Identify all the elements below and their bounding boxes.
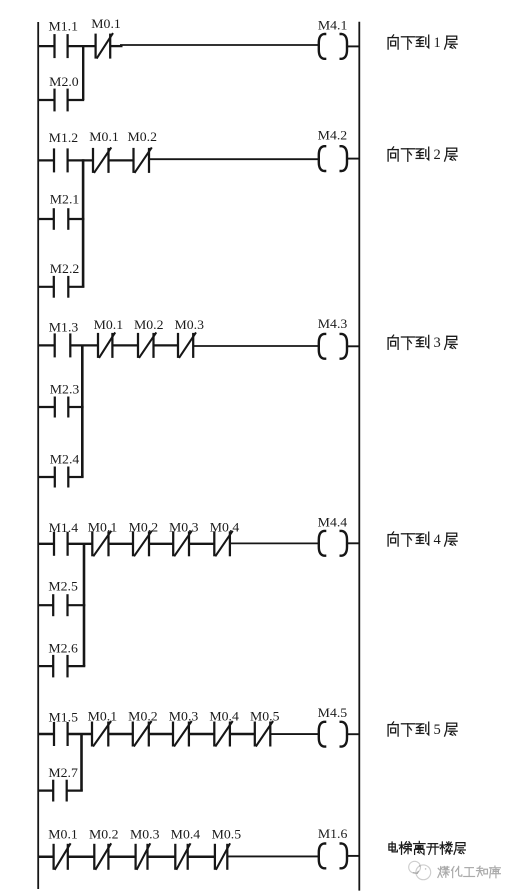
junction branches M2.5 M2.6 — [83, 544, 86, 666]
svg-text:M0.1: M0.1 — [89, 129, 119, 144]
wire M0.2 to M0.3 — [108, 856, 135, 859]
watermark logo — [409, 861, 431, 879]
junction branch M2.0 — [82, 45, 84, 100]
contact M0.2 (normally closed) — [94, 843, 111, 870]
wire rail to M2.5 — [38, 604, 54, 606]
wire M0.3 to M0.4 — [189, 733, 214, 735]
svg-text:M0.2: M0.2 — [128, 129, 158, 144]
wire M2.5 to junction — [68, 604, 86, 606]
node label: comment text "down to floor 2" — [388, 147, 457, 163]
watermark text — [438, 866, 501, 878]
contact M0.5 (normally closed) — [255, 721, 273, 747]
contact M0.1 (normally closed) — [96, 33, 113, 59]
svg-text:M1.5: M1.5 — [49, 709, 79, 724]
contact M2.0 (normally open) — [55, 89, 68, 112]
svg-text:M0.5: M0.5 — [212, 826, 242, 841]
svg-text:M2.6: M2.6 — [48, 641, 78, 656]
svg-text:M2.7: M2.7 — [48, 765, 78, 780]
wire coil M1.6 to right rail — [348, 855, 359, 857]
contact M1.5 (normally open) — [54, 722, 68, 746]
contact M2.6 (normally open) — [53, 655, 67, 678]
svg-text:M0.4: M0.4 — [210, 519, 240, 534]
svg-text:M0.4: M0.4 — [171, 826, 201, 841]
contact M0.4 (normally closed) — [214, 531, 232, 557]
node label: comment text "down to floor 5" — [388, 722, 457, 738]
svg-text:5: 5 — [434, 722, 441, 738]
wire long run to coil M4.1 — [120, 44, 318, 46]
svg-text:M2.2: M2.2 — [50, 261, 80, 276]
wire long run to coil M4.3 — [193, 345, 318, 347]
svg-text:M1.1: M1.1 — [49, 19, 79, 34]
wire M2.0 to junction — [68, 99, 85, 101]
wire M0.2 to M0.3 — [149, 733, 173, 735]
svg-text:M0.1: M0.1 — [94, 317, 124, 332]
contact M0.4 (normally closed) — [175, 843, 190, 870]
wire rail to M2.6 — [38, 665, 54, 667]
contact M0.2 (normally closed) — [138, 332, 156, 358]
wire M1.1 to M0.1 — [68, 45, 96, 47]
contact M1.2 (normally open) — [54, 148, 68, 172]
wire rail to M1.1 — [38, 45, 55, 47]
svg-text:M4.3: M4.3 — [318, 316, 348, 331]
wire M0.2 to M0.3 — [154, 344, 179, 346]
svg-text:M0.2: M0.2 — [128, 709, 158, 724]
junction branches M2.1 M2.2 — [82, 159, 85, 287]
svg-text:M0.2: M0.2 — [134, 317, 164, 332]
wire M0.2 to M0.3 — [149, 543, 173, 545]
contact M0.4 (normally closed) — [214, 721, 232, 747]
junction branch M2.7 — [80, 734, 83, 791]
wire long run to coil M4.2 — [149, 158, 318, 160]
wire M2.7 to junction — [67, 789, 83, 791]
wire M0.1 to M0.2 — [108, 733, 133, 735]
wire rail to M0.1 — [38, 856, 54, 859]
wire rail to M1.4 — [38, 543, 55, 545]
wire rail to M2.2 — [38, 286, 54, 288]
rung 5 : M4.5 down-to-floor-5 — [38, 705, 360, 802]
wire rail to M2.7 — [38, 789, 54, 791]
wire rail to M2.3 — [38, 406, 55, 408]
node label: comment text "elevator leaves floor" — [389, 841, 465, 854]
contact M0.1 (normally closed) — [92, 531, 111, 557]
contact M0.1 (normally closed) — [93, 147, 111, 173]
svg-text:M1.6: M1.6 — [318, 826, 348, 841]
contact M2.3 (normally open) — [55, 397, 69, 418]
wire coil M4.5 to right rail — [348, 733, 359, 735]
svg-text:M2.3: M2.3 — [50, 382, 80, 397]
contact M1.4 (normally open) — [54, 532, 68, 556]
rung 3 : M4.3 down-to-floor-3 — [38, 316, 360, 488]
svg-text:M1.4: M1.4 — [49, 520, 79, 535]
wire M2.1 to junction — [68, 218, 84, 220]
wire M1.3 to M0.1 — [70, 344, 98, 346]
wire M1.5 to M0.1 — [68, 733, 92, 735]
contact M2.4 (normally open) — [55, 467, 69, 488]
rung 2 : M4.2 down-to-floor-2 — [38, 128, 360, 298]
wire rail to M1.3 — [38, 344, 55, 346]
coil M4.2 — [319, 146, 347, 171]
wire M0.1 to M0.2 — [109, 159, 134, 161]
wire M2.4 to junction — [68, 476, 83, 478]
coil M4.5 — [319, 722, 347, 747]
contact M0.3 (normally closed) — [178, 332, 196, 358]
svg-text:M0.1: M0.1 — [88, 709, 118, 724]
svg-text:3: 3 — [434, 335, 441, 351]
svg-text:M0.3: M0.3 — [175, 317, 205, 332]
wire M1.4 to M0.1 — [68, 543, 93, 545]
svg-text:M0.4: M0.4 — [209, 709, 239, 724]
wire long run to coil M4.5 — [270, 733, 318, 735]
wire long run to coil M4.4 — [230, 542, 318, 544]
wire coil M4.2 to right rail — [348, 158, 359, 160]
wire M2.2 to junction — [68, 286, 84, 288]
wire long run to coil M1.6 — [227, 855, 318, 857]
contact M0.2 (normally closed) — [134, 147, 152, 173]
wire M0.4 to M0.5 — [188, 856, 215, 859]
wire rail to M1.5 — [38, 733, 55, 735]
contact M0.3 (normally closed) — [173, 531, 192, 557]
contact M0.1 (normally closed) — [92, 721, 111, 747]
node label: comment text "down to floor 1" — [388, 35, 457, 51]
svg-text:M0.1: M0.1 — [91, 16, 121, 31]
svg-text:M2.5: M2.5 — [48, 578, 78, 593]
contact M0.3 (normally closed) — [136, 843, 151, 870]
contact M0.2 (normally closed) — [133, 721, 152, 747]
wire coil M4.4 to right rail — [348, 542, 359, 544]
contact M2.1 (normally open) — [54, 208, 69, 230]
coil M4.4 — [319, 531, 347, 556]
contact M0.3 (normally closed) — [173, 721, 192, 747]
wire M0.1 to M0.2 — [68, 856, 95, 859]
coil M4.3 — [319, 334, 347, 359]
rung 4 : M4.4 down-to-floor-4 — [38, 514, 360, 677]
svg-text:4: 4 — [434, 532, 442, 548]
contact M0.5 (normally closed) — [215, 843, 230, 870]
contact M2.7 (normally open) — [53, 780, 66, 802]
svg-text:M4.4: M4.4 — [318, 514, 348, 529]
rung 1 : M4.1 down-to-floor-1 — [38, 16, 360, 111]
wire M0.1 to M0.2 — [109, 543, 134, 545]
svg-text:2: 2 — [434, 147, 441, 163]
svg-text:M1.2: M1.2 — [49, 130, 78, 145]
wire coil M4.1 to right rail — [348, 45, 359, 47]
coil M4.1 — [319, 34, 347, 59]
contact M1.3 (normally open) — [55, 333, 71, 357]
contact M1.1 (normally open) — [55, 34, 68, 58]
left power rail — [37, 22, 39, 889]
wire rail to M2.4 — [38, 476, 55, 478]
svg-text:M0.5: M0.5 — [250, 709, 280, 724]
svg-text:M4.5: M4.5 — [318, 705, 348, 720]
contact M0.1 (normally closed) — [54, 843, 71, 870]
contact M0.1 (normally closed) — [98, 332, 115, 358]
svg-text:M4.2: M4.2 — [318, 128, 348, 143]
rung 6 : M1.6 elevator-leaves-floor — [38, 826, 360, 870]
svg-text:M0.3: M0.3 — [130, 826, 160, 841]
svg-text:M0.3: M0.3 — [169, 709, 199, 724]
svg-text:M0.2: M0.2 — [129, 519, 159, 534]
svg-text:M0.1: M0.1 — [88, 519, 118, 534]
wire rail to M2.0 — [38, 99, 55, 101]
svg-text:M4.1: M4.1 — [318, 17, 348, 32]
svg-text:M2.1: M2.1 — [50, 192, 80, 207]
svg-text:M0.1: M0.1 — [48, 826, 78, 841]
contact M0.2 (normally closed) — [133, 531, 152, 557]
wire M2.6 to junction — [68, 665, 86, 667]
wire M0.4 to M0.5 — [230, 733, 255, 735]
wire rail to M2.1 — [38, 218, 54, 220]
wire M1.2 to M0.1 — [68, 159, 93, 161]
svg-text:M2.4: M2.4 — [50, 452, 80, 467]
wire M0.1 to M0.2 — [112, 344, 138, 346]
wire rail to M1.2 — [38, 159, 55, 161]
svg-text:M0.2: M0.2 — [89, 826, 119, 841]
node label: comment text "down to floor 3" — [388, 335, 457, 351]
svg-text:1: 1 — [434, 35, 441, 51]
svg-text:M1.3: M1.3 — [49, 319, 79, 334]
svg-text:M2.0: M2.0 — [49, 74, 78, 89]
wire stub after M0.1 — [110, 45, 122, 47]
contact M2.5 (normally open) — [53, 594, 67, 616]
node label: comment text "down to floor 4" — [388, 532, 457, 548]
right power rail — [358, 22, 360, 891]
svg-text:M0.3: M0.3 — [169, 519, 199, 534]
wire M0.3 to M0.4 — [189, 543, 214, 545]
coil M1.6 — [319, 844, 347, 869]
wire M0.3 to M0.4 — [148, 856, 176, 859]
wire M2.3 to junction — [68, 406, 83, 408]
wire coil M4.3 to right rail — [348, 345, 359, 347]
contact M2.2 (normally open) — [54, 276, 69, 298]
junction branches M2.3 M2.4 — [81, 345, 84, 477]
